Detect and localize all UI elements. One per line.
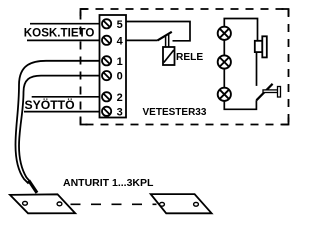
- dashed link between sensors: [71, 203, 157, 205]
- plate 2 hole a: [160, 202, 165, 206]
- pushbutton actuator shaft: [263, 90, 278, 93]
- wire row5 left: [30, 23, 102, 25]
- plate 1 hole b: [57, 202, 62, 206]
- svg-text:5: 5: [117, 19, 123, 31]
- lamp H1: [218, 27, 231, 40]
- wire sensor B (from terminal 0): [19, 76, 102, 183]
- wire row5 right to relay contact: [126, 22, 190, 41]
- terminal labels 5 4 1 0 2 3: [117, 19, 124, 119]
- terminal 0: [102, 71, 111, 80]
- relay switch arm: [158, 32, 172, 41]
- wire row3 left: [24, 111, 102, 113]
- svg-text:ANTURIT 1...3KPL: ANTURIT 1...3KPL: [63, 177, 154, 189]
- lamp H3: [218, 88, 231, 101]
- wire bundle to sensor: [29, 181, 37, 193]
- svg-text:0: 0: [117, 71, 123, 83]
- terminal block X1: [100, 15, 127, 118]
- svg-text:4: 4: [117, 35, 124, 47]
- terminal 5: [102, 19, 111, 28]
- plate 1 hole a: [23, 201, 28, 205]
- wire: [223, 69, 225, 88]
- terminal 4: [102, 36, 111, 45]
- wire sensor A (from terminal 1): [16, 61, 103, 184]
- wire row4 left: [27, 39, 102, 41]
- pushbutton switch arm S1: [256, 84, 272, 101]
- wire buzzer to switch contact: [256, 52, 258, 86]
- lamp loop bottom wire: [224, 100, 256, 109]
- wire: [223, 40, 225, 56]
- plate 2 hole b: [194, 202, 199, 206]
- pushbutton actuator bar: [278, 87, 281, 98]
- lamp loop top wire: [224, 19, 257, 41]
- sensor plate 2: [151, 194, 212, 213]
- border corner ticks: [81, 9, 289, 125]
- wire row2 left: [32, 96, 102, 98]
- svg-text:3: 3: [117, 106, 123, 118]
- dashed enclosure border: [81, 9, 289, 125]
- svg-text:1: 1: [117, 56, 123, 68]
- sensor plate 1: [10, 194, 75, 213]
- svg-text:VETESTER33: VETESTER33: [143, 107, 207, 118]
- relay mechanical link: [166, 35, 169, 47]
- lamp H2: [218, 55, 231, 68]
- svg-text:2: 2: [117, 92, 123, 104]
- svg-text:SYÖTTÖ: SYÖTTÖ: [25, 97, 75, 112]
- terminal 2: [102, 92, 111, 101]
- buzzer element: [255, 41, 262, 52]
- terminal 3: [102, 107, 111, 116]
- svg-text:RELE: RELE: [176, 52, 203, 63]
- wire row4 right to switch pivot: [126, 39, 158, 41]
- terminal 1: [102, 56, 111, 65]
- relay coil K1: [163, 47, 175, 65]
- svg-text:KOSK.TIETO: KOSK.TIETO: [24, 26, 95, 39]
